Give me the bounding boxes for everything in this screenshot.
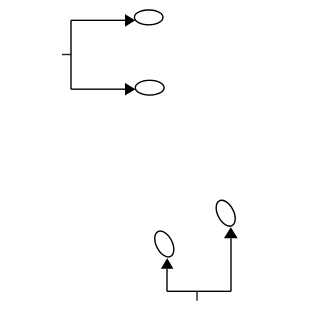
wire: vertical spine of top fork <box>70 20 72 89</box>
ellipse node C (tilted) <box>151 228 178 260</box>
ellipse node B <box>135 80 164 95</box>
wire: top branch horizontal <box>71 19 126 21</box>
wire: right vertical of bottom bracket <box>230 238 232 291</box>
tick (stub) below bottom bracket <box>196 291 198 300</box>
arrowhead on left vertical <box>161 258 174 269</box>
wire: left vertical of bottom bracket <box>166 269 168 292</box>
wire: bottom bracket horizontal <box>167 290 231 292</box>
tick (stub) left of top fork <box>62 54 71 56</box>
ellipse node top-right A <box>134 10 163 25</box>
ellipse node D (tilted) <box>212 197 239 229</box>
wire: bottom branch horizontal <box>71 88 126 90</box>
arrowhead on top branch <box>125 14 135 27</box>
arrowhead on right vertical <box>224 227 238 238</box>
arrowhead on bottom branch <box>125 83 135 96</box>
